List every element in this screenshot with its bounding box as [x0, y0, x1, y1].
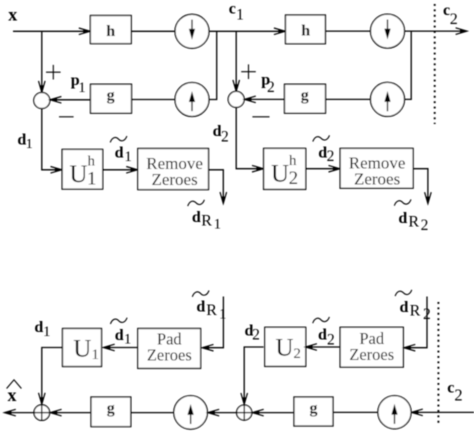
filter h2 box: [286, 15, 326, 44]
svg-text:1: 1: [87, 169, 97, 190]
node d2 tilde label (synthesis): [313, 317, 335, 348]
arrowhead down into adder S1: [39, 81, 46, 92]
plus sign at adder S1: [46, 65, 61, 80]
svg-text:1: 1: [214, 216, 222, 232]
arrowhead into remove zeroes 2: [329, 165, 340, 172]
svg-text:2: 2: [221, 128, 229, 145]
wire upsampler P2 to filter g2: [326, 98, 371, 100]
svg-text:1: 1: [92, 347, 100, 363]
minus sign at adder S1: [59, 116, 74, 118]
upsampler Q2 (synthesis): [378, 396, 411, 429]
svg-text:1: 1: [43, 324, 51, 340]
wire branch x down to adder S1: [41, 31, 43, 91]
arrowhead into h2: [274, 28, 285, 35]
upsampler P2: [371, 82, 405, 116]
arrowhead into adder A2 from g2s: [252, 409, 263, 416]
svg-text:d: d: [115, 327, 124, 344]
pad zeroes block 2: [340, 327, 403, 367]
node dR2 tilde label (analysis output): [394, 199, 428, 234]
svg-text:x: x: [8, 385, 17, 405]
svg-text:d: d: [115, 145, 124, 162]
svg-text:d: d: [400, 299, 409, 316]
wire downsampler D2 to output c2: [405, 30, 466, 32]
node dR2 tilde label (synthesis input 2): [395, 290, 431, 323]
wire input x to filter h1: [13, 30, 90, 32]
wire adder A2 to upsampler Q1: [209, 412, 236, 414]
svg-text:2: 2: [421, 217, 429, 234]
arrowhead down into adder A1: [39, 393, 46, 404]
svg-text:R: R: [201, 213, 212, 230]
svg-text:g: g: [301, 87, 309, 104]
svg-text:Zeroes: Zeroes: [354, 169, 400, 188]
wire output xhat with arrowhead: [6, 412, 35, 414]
svg-text:1: 1: [124, 149, 131, 165]
wire dR1 down into pad zeroes 1: [204, 297, 224, 348]
wire upsampler Q1 to g1s: [131, 412, 174, 414]
wire input c2 to upsampler Q2: [413, 411, 474, 413]
svg-text:d: d: [318, 327, 327, 344]
svg-text:2: 2: [327, 331, 335, 348]
wire U1 left and down to output adder A1: [42, 348, 63, 404]
node d2 tilde label (after U2h): [313, 135, 335, 165]
wire U2 left and down to adder A2: [244, 347, 263, 403]
update block U2 box: [265, 327, 306, 366]
dotted separator line (top): [434, 4, 436, 124]
arrowhead into pad zeroes 1: [202, 344, 213, 351]
remove zeroes block 1: [138, 149, 209, 190]
svg-text:d: d: [196, 299, 205, 316]
svg-text:U: U: [271, 161, 289, 188]
adder S2 (predict subtract): [228, 91, 244, 107]
arrowhead into upsampler Q1: [208, 409, 219, 416]
wire U1h to remove zeroes 1: [103, 169, 136, 171]
svg-text:1: 1: [236, 7, 244, 24]
svg-text:Zeroes: Zeroes: [147, 345, 192, 364]
wire remove zeroes 2 output elbow down: [413, 169, 428, 202]
arrowhead output c2: [456, 28, 467, 35]
node d1 tilde label (after U1h): [110, 136, 132, 165]
upsampler P1: [175, 83, 209, 117]
arrowhead into remove zeroes 1: [126, 167, 137, 174]
update block U1h box: [62, 149, 103, 189]
wire g2 to adder S2: [246, 98, 285, 100]
svg-text:g: g: [107, 87, 115, 104]
wire g2s to adder A2: [254, 412, 294, 414]
wire feedback branch down to upsampler P1: [209, 31, 217, 99]
plus sign at adder S2: [241, 64, 256, 79]
svg-text:d: d: [192, 209, 201, 226]
wire adder S1 output down to update U1h: [42, 109, 61, 170]
filter g2 box (synthesis): [294, 397, 333, 426]
wire branch c1 down to adder S2: [235, 31, 237, 90]
svg-text:R: R: [206, 302, 217, 319]
wire g1s to adder A1: [52, 412, 92, 414]
svg-text:g: g: [107, 400, 115, 417]
wire g1 to adder S1: [52, 99, 91, 101]
svg-text:h: h: [289, 153, 297, 169]
wire h2 to downsampler D2: [325, 30, 370, 32]
wire h1 to downsampler D1: [131, 30, 175, 32]
output adder A2 (circle-plus): [237, 405, 252, 420]
svg-text:2: 2: [423, 306, 431, 323]
svg-text:d: d: [398, 210, 407, 227]
filter h1 box: [90, 16, 131, 44]
arrowhead into pad zeroes 2: [404, 344, 415, 351]
wire pad zeroes 1 to U1: [105, 347, 138, 349]
svg-text:Zeroes: Zeroes: [151, 170, 197, 189]
arrowhead into h1: [79, 28, 90, 35]
downsampler D1: [175, 14, 209, 48]
wire adder S2 output down to update U2h: [236, 107, 262, 168]
svg-text:2: 2: [327, 148, 335, 165]
svg-text:1: 1: [124, 331, 131, 347]
output adder A1 (circle-plus): [34, 405, 50, 421]
node d1 tilde label (synthesis): [110, 318, 131, 348]
filter g1 box: [91, 84, 132, 113]
svg-text:U: U: [275, 334, 293, 361]
upsampler Q1 (synthesis): [174, 396, 208, 430]
svg-text:R: R: [408, 213, 419, 230]
filter g1 box (synthesis): [91, 397, 131, 427]
arrowhead down into adder S2: [233, 80, 240, 91]
pad zeroes block 1: [138, 329, 201, 369]
svg-text:2: 2: [450, 11, 458, 28]
svg-text:c: c: [229, 1, 236, 18]
wire U2h to remove zeroes 2: [306, 168, 339, 170]
svg-text:x: x: [8, 5, 17, 25]
arrowhead output xhat: [4, 409, 15, 416]
adder S1 (predict subtract): [34, 93, 50, 109]
wire remove zeroes 1 output elbow down: [209, 170, 224, 202]
wire pad zeroes 2 to U2: [307, 346, 340, 348]
svg-text:2: 2: [289, 168, 299, 189]
remove zeroes block 2: [340, 148, 413, 188]
svg-text:U: U: [73, 336, 91, 363]
filter g2 box: [285, 84, 326, 113]
svg-text:1: 1: [78, 80, 86, 96]
svg-text:U: U: [69, 161, 87, 188]
svg-text:2: 2: [252, 327, 260, 344]
wire upsampler P1 to filter g1: [132, 99, 176, 101]
svg-text:h: h: [301, 23, 310, 40]
update block U1 box: [63, 329, 102, 367]
svg-text:2: 2: [454, 385, 462, 404]
arrowhead into U2h: [252, 165, 263, 172]
wire dR2 down into pad zeroes 2: [406, 297, 428, 348]
node dR1 tilde label (analysis output): [188, 200, 221, 233]
svg-text:Zeroes: Zeroes: [349, 345, 394, 364]
arrowhead into adder A1 from g1s: [50, 409, 61, 416]
arrowhead into U1h: [51, 167, 62, 174]
dotted separator line (bottom): [437, 302, 439, 424]
svg-text:1: 1: [26, 137, 33, 152]
update block U2h box: [264, 148, 306, 189]
svg-text:2: 2: [267, 79, 275, 96]
wire downsampler D1 to stage2 (c1 line): [209, 30, 287, 32]
downsampler D2: [371, 14, 405, 48]
wire upsampler Q2 to g2s: [333, 411, 378, 413]
arrowhead down output dR2: [425, 192, 432, 203]
svg-text:c: c: [447, 380, 454, 397]
svg-text:g: g: [310, 400, 318, 417]
svg-text:R: R: [410, 303, 421, 320]
node x-hat label: [7, 380, 22, 405]
node dR1 tilde label (synthesis input 1): [192, 291, 226, 323]
wire feedback branch down to upsampler P2: [405, 31, 412, 99]
arrowhead down into adder A2: [241, 393, 248, 404]
arrowhead into upsampler Q2: [411, 409, 422, 416]
arrowhead into U2: [306, 344, 317, 351]
svg-text:h: h: [106, 23, 115, 40]
minus sign at adder S2: [252, 116, 269, 118]
arrowhead into adder S2 from g2: [244, 96, 255, 103]
svg-text:2: 2: [293, 346, 301, 362]
arrowhead into adder S1 from g1: [50, 97, 61, 104]
arrowhead down output dR1: [220, 192, 227, 203]
svg-text:h: h: [88, 154, 96, 170]
arrowhead into U1: [103, 344, 114, 351]
